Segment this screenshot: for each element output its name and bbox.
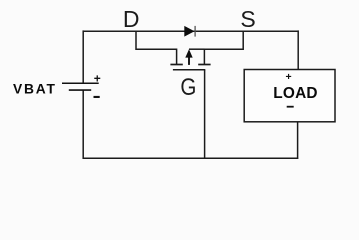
battery polarity - sign: [94, 96, 100, 98]
wire: right rail lower (LOAD bottom to bottom rail): [297, 122, 299, 159]
MOSFET Q1: gate plate: [173, 69, 205, 71]
battery VBAT: short negative plate: [69, 89, 91, 91]
battery VBAT: long positive plate: [62, 82, 99, 84]
svg-text:S: S: [240, 6, 255, 32]
wire: bottom rail: [83, 157, 299, 159]
svg-text:VBAT: VBAT: [13, 82, 57, 97]
MOSFET Q1: source electrode foot bar: [198, 64, 210, 66]
MOSFET Q1: drain electrode foot bar: [170, 64, 182, 66]
wire: left rail lower (battery - to bottom rail): [82, 90, 84, 159]
body diode D-S: anode triangle: [184, 26, 194, 37]
wire: gate lead down to bottom rail: [204, 70, 206, 159]
svg-text:G: G: [180, 74, 196, 101]
LOAD box outline: [244, 70, 335, 122]
svg-text:LOAD: LOAD: [273, 85, 317, 102]
wire: right rail upper (top rail corner down to LOAD top): [297, 30, 299, 69]
MOSFET Q1: body arrow shaft (pointing up): [188, 57, 190, 65]
MOSFET Q1: source branch (staple from top rail below S to right electrode leg): [204, 31, 243, 64]
wire: left rail upper (battery + to top rail): [82, 30, 84, 82]
MOSFET Q1: drain branch (staple from top rail below D to left electrode leg): [136, 31, 177, 64]
MOSFET Q1: body tie jog from arrow to source branch: [189, 48, 204, 50]
svg-text:+: +: [94, 71, 101, 85]
wire: top rail from battery + to S corner: [83, 30, 298, 32]
LOAD box - sign: [287, 106, 294, 108]
svg-text:+: +: [286, 71, 292, 83]
body diode: cathode bar: [194, 26, 196, 37]
MOSFET Q1: body arrow head: [185, 49, 192, 57]
svg-text:D: D: [123, 6, 140, 32]
